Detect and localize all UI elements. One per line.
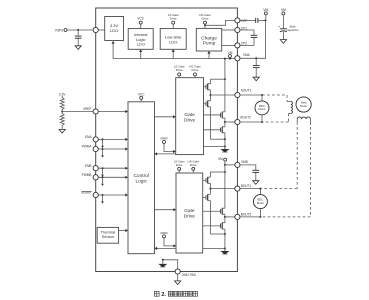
Gate Drive A block <box>176 78 204 155</box>
svg-text:VCC: VCC <box>138 92 145 96</box>
motor BDC B <box>253 189 267 217</box>
svg-text:LDO: LDO <box>137 42 145 47</box>
wire A high-side 2 source <box>224 119 226 123</box>
svg-text:V3P3: V3P3 <box>55 28 63 32</box>
pin ENB with pulldown <box>85 164 128 177</box>
wire gate drive A to bridge ground <box>204 146 225 148</box>
wire control to gate drive A <box>155 115 176 118</box>
pin AOUT2 <box>235 116 251 125</box>
pin BOUT2 <box>235 213 252 220</box>
wire VREF to control logic <box>98 110 128 113</box>
svg-text:Drive: Drive <box>176 68 183 72</box>
wire VM feed to Low-Side LDO <box>172 49 175 58</box>
net stub V3P3 external <box>64 29 93 32</box>
wire dashed winding B to BOUT1 <box>261 122 297 189</box>
wire B high-side 2 source <box>224 216 226 218</box>
inductor stepper winding A <box>287 102 292 114</box>
wire dashed winding B to BOUT2 <box>261 122 310 217</box>
pin BOUT1 <box>235 184 252 191</box>
wire thermal sensor to control logic <box>119 229 128 232</box>
net stub LS Gate Drive (low-side LDO output) <box>168 13 179 28</box>
pin PWMA with pulldown <box>82 145 128 158</box>
pin VREF <box>83 107 98 114</box>
wire bridge A high-side drain <box>210 79 225 82</box>
wire bridge A source bus <box>210 138 226 147</box>
supply 3.3V (reference divider) <box>59 92 66 97</box>
3.3V LDO block <box>105 17 124 41</box>
wire gate drive A to control <box>155 152 176 155</box>
wire logic ground to GND pad <box>162 259 178 269</box>
wire A low-side 2 source <box>224 134 226 139</box>
wire VM drop to bridge A <box>224 58 226 81</box>
Thermal Sensor block <box>97 227 118 243</box>
transistor B high-side 2 <box>203 207 225 216</box>
svg-text:LDO: LDO <box>169 39 177 44</box>
net stub VREF (gate drive B) <box>160 231 176 248</box>
svg-text:Sensor: Sensor <box>102 234 115 239</box>
svg-text:AOUT2: AOUT2 <box>240 116 251 120</box>
net stub VM (bridge A supply) <box>228 51 233 59</box>
pin GND PAD <box>175 269 196 277</box>
transistor B high-side 1 <box>203 176 211 185</box>
svg-text:BOUT2: BOUT2 <box>241 213 252 217</box>
wire BOUT2 to BDC motor B <box>240 216 261 218</box>
pin nSLEEP with pulldown <box>81 191 128 204</box>
pin CP2 <box>235 42 247 48</box>
svg-text:VMA: VMA <box>243 53 251 57</box>
svg-text:Gate: Gate <box>184 112 195 118</box>
capacitor bulk (polarized) <box>278 25 299 40</box>
capacitor VCP-VM (charge pump storage cap) <box>240 18 267 23</box>
transistor A high-side 2 <box>204 111 225 120</box>
ground VMA bypass cap <box>253 77 259 81</box>
svg-text:VMB: VMB <box>241 160 248 164</box>
ground bridge A (PGND) <box>220 147 229 153</box>
ground bridge B (PGND) <box>220 249 229 255</box>
supply VM (to chip) <box>240 8 269 59</box>
motor Step <box>296 97 311 112</box>
svg-text:Drive: Drive <box>190 163 197 167</box>
resistor divider upper <box>60 98 64 110</box>
capacitor CP1-CP2 (flying cap) <box>240 30 257 45</box>
wire A low-side 2 drain <box>224 122 226 126</box>
wire bridge B high-side drain <box>210 172 225 176</box>
wire V3P3 pin to 3.3V LDO <box>98 29 104 31</box>
svg-text:Logic: Logic <box>135 178 147 184</box>
svg-text:Drive: Drive <box>170 17 177 21</box>
svg-text:VCC: VCC <box>137 17 144 21</box>
svg-text:Gate: Gate <box>184 208 195 214</box>
net stub LS Gate Drive (gate drive B) <box>174 160 185 173</box>
Control Logic block <box>128 102 155 254</box>
motor BDC A <box>255 95 269 122</box>
svg-text:+: + <box>278 25 280 29</box>
ground VMB cap <box>253 181 259 185</box>
Internal Logic LDO block <box>128 29 153 50</box>
net stub LS Gate Drive (gate drive A) <box>174 65 185 78</box>
svg-text:VREF: VREF <box>160 137 168 141</box>
svg-text:Motor: Motor <box>258 107 265 111</box>
wire dashed stepper winding A return <box>262 114 291 123</box>
wire B low-side 1 drain <box>209 189 211 194</box>
svg-text:VREF: VREF <box>160 231 168 235</box>
Low-Side LDO block <box>160 29 186 50</box>
svg-text:2.: 2. <box>161 292 166 298</box>
node VREF tap <box>61 110 63 114</box>
ground V3P3 cap <box>75 46 81 50</box>
pin ENA with pulldown <box>85 135 128 148</box>
wire AOUT1 to BDC motor A <box>240 94 263 96</box>
wire VM feed to 3.3V LDO <box>111 41 114 59</box>
svg-text:VREF: VREF <box>83 107 92 111</box>
svg-text:PWMB: PWMB <box>82 173 92 177</box>
wire BOUT2 node <box>225 216 235 218</box>
Gate Drive B block <box>176 173 203 253</box>
svg-text:AOUT1: AOUT1 <box>241 89 252 93</box>
pin VMB <box>235 160 248 167</box>
chip outline (device boundary) <box>96 8 238 272</box>
ground bulk capacitor <box>280 40 286 44</box>
wire BOUT1 node <box>209 185 234 190</box>
wire B low-side 2 drain <box>224 217 226 222</box>
transistor B low-side 2 <box>203 222 225 231</box>
wire HS gate drive stub to VCP pin <box>205 20 235 25</box>
wire VM feed to Charge Pump <box>207 51 210 59</box>
svg-text:Drive: Drive <box>191 68 198 72</box>
svg-text:3.3V: 3.3V <box>59 92 66 96</box>
wire BOUT1 to BDC motor B <box>240 188 261 190</box>
transistor B low-side 1 <box>203 193 211 202</box>
svg-text:Drive: Drive <box>184 118 196 124</box>
capacitor VMA bypass <box>253 57 260 77</box>
ground reference divider <box>59 129 65 133</box>
transistor A high-side 1 <box>204 83 211 92</box>
wire control to gate drive B <box>155 208 177 211</box>
wire A low-side 1 drain <box>209 95 211 100</box>
svg-text:BOUT1: BOUT1 <box>241 184 252 188</box>
svg-text:ENA: ENA <box>85 135 92 139</box>
pin VMA <box>235 53 251 61</box>
transistor A low-side 1 <box>204 100 211 109</box>
transistor A low-side 2 <box>204 126 225 134</box>
wire B low-side 1 source <box>209 202 211 234</box>
svg-text:Motor: Motor <box>300 104 307 108</box>
wire VM drop to A high-side 2 <box>224 79 226 111</box>
svg-text:VM: VM <box>281 8 286 12</box>
pin PWMB with pulldown <box>82 173 128 186</box>
svg-text:GND PAD: GND PAD <box>182 273 197 277</box>
supply VM (bulk) <box>281 8 286 29</box>
net stub HS Gate Drive (gate drive B) <box>188 160 200 173</box>
Charge Pump block <box>196 28 221 51</box>
pin VCP <box>235 18 247 23</box>
svg-text:VM: VM <box>218 157 223 161</box>
wire charge pump to CP1 pin <box>222 29 235 31</box>
svg-text:LDO: LDO <box>110 28 118 33</box>
ground internal logic <box>158 260 167 268</box>
caption figure title 图 2. 功能结构框图 <box>154 291 197 298</box>
inductor stepper winding B <box>297 117 310 122</box>
wire tap to VREF pin <box>62 111 93 113</box>
wire B low-side 2 source <box>224 230 226 234</box>
wire gate drive B to bridge ground <box>203 248 225 250</box>
pin AOUT1 <box>235 89 252 98</box>
svg-text:PWMA: PWMA <box>82 145 93 149</box>
wire bridge B source bus <box>210 233 226 250</box>
svg-text:Control: Control <box>133 173 148 179</box>
svg-text:Pump: Pump <box>203 41 216 47</box>
wire AOUT2 node <box>225 121 235 123</box>
capacitor VMB bypass <box>240 165 259 181</box>
wire A low-side 1 source <box>209 108 211 139</box>
net stub VM (bridge B supply) <box>218 157 227 166</box>
net stub HS Gate Drive (charge pump output) <box>199 13 211 28</box>
svg-text:Drive: Drive <box>201 17 208 21</box>
svg-text:Drive: Drive <box>184 213 196 219</box>
pin V3P3 <box>55 27 99 32</box>
wire AOUT1 node <box>209 91 234 96</box>
svg-text:Motor: Motor <box>257 201 264 205</box>
svg-text:ENB: ENB <box>85 164 92 168</box>
wire VM drop to bridge B <box>224 165 226 173</box>
svg-text:VM: VM <box>263 8 268 12</box>
wire VM drop to B high-side 2 <box>224 172 226 207</box>
wire AOUT2 to BDC motor A <box>240 121 263 123</box>
ground GND pad external <box>175 274 181 284</box>
net stub VCC (internal logic supply) <box>137 17 144 29</box>
net stub VCC (control logic supply) <box>138 92 145 101</box>
wire charge pump to CP2 pin <box>222 44 235 46</box>
wire to divider ground <box>61 125 63 129</box>
svg-text:capacitor: capacitor <box>287 28 299 32</box>
wire internal VM rail <box>113 58 237 60</box>
net stub VREF (gate drive A) <box>160 137 176 154</box>
svg-text:Charge: Charge <box>201 35 217 41</box>
capacitor V3P3 bypass <box>75 30 82 46</box>
pin CP1 <box>235 26 247 32</box>
svg-text:Drive: Drive <box>176 163 183 167</box>
wire VM feed to Internal Logic LDO <box>139 49 142 58</box>
resistor divider lower <box>60 113 64 125</box>
wire gate drive B to control <box>155 247 177 250</box>
net stub HS Gate Drive (gate drive A) <box>189 65 201 78</box>
wire dashed AOUT1 to stepper winding A <box>262 95 287 102</box>
wire VMB node to pin <box>225 164 235 166</box>
